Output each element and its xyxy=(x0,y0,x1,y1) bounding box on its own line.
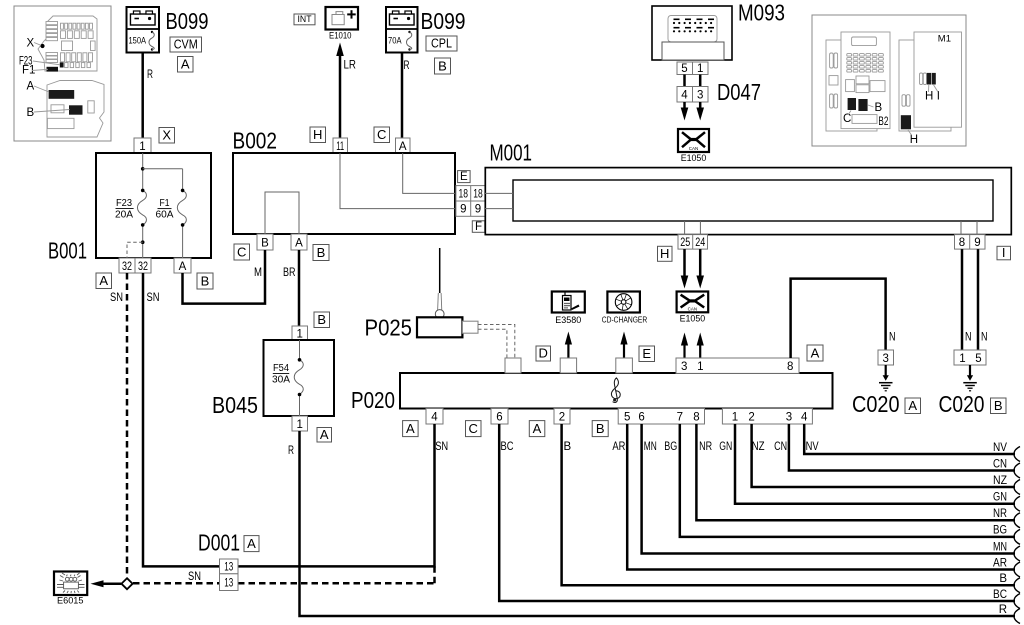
svg-text:60A: 60A xyxy=(156,210,174,221)
wire NR: P020 to right rail xyxy=(696,424,1015,520)
pins 18/18 9/9 (B002-M001 junction) xyxy=(456,186,486,217)
wire SN (dashed): junction to D001/P020 xyxy=(133,566,435,583)
label E xyxy=(458,171,471,183)
svg-text:BG: BG xyxy=(664,441,677,453)
wires M093 to D047 xyxy=(685,75,701,87)
svg-text:150A: 150A xyxy=(129,36,147,47)
svg-text:CN: CN xyxy=(774,441,787,453)
svg-text:9: 9 xyxy=(460,204,466,216)
svg-text:A: A xyxy=(181,57,190,72)
wire M: B002 pin B to B001 pin A xyxy=(183,250,266,304)
connector D001 pins 13/13 xyxy=(220,559,239,591)
svg-text:D: D xyxy=(539,346,548,361)
svg-text:BR: BR xyxy=(283,267,296,279)
wire BC: P020 to right rail xyxy=(499,424,1015,601)
svg-text:R: R xyxy=(147,69,153,81)
wires N N: M001 pins 8,9 to C020-B xyxy=(962,249,988,350)
component M001 (body computer) xyxy=(485,140,1011,235)
svg-text:B: B xyxy=(438,58,447,73)
pin 3 (C020-A) xyxy=(878,350,894,365)
svg-text:GN: GN xyxy=(993,492,1007,504)
svg-text:E1050: E1050 xyxy=(681,153,707,163)
svg-text:M: M xyxy=(254,267,262,279)
label C (B002) xyxy=(234,244,250,260)
svg-text:1: 1 xyxy=(296,328,302,340)
svg-text:NV: NV xyxy=(993,442,1007,454)
svg-text:5: 5 xyxy=(975,353,981,365)
wire BR: B002 pin A to B045 pin 1 xyxy=(283,250,299,326)
trace rows into M001 xyxy=(485,193,513,208)
pin 6 (P020) xyxy=(491,409,508,425)
label I (M001) xyxy=(997,245,1011,260)
svg-text:SN: SN xyxy=(110,292,123,304)
P020 top connector (antenna) xyxy=(505,358,521,373)
wires arrows P020 pins 3,1 to E1050 xyxy=(681,333,704,359)
svg-text:B: B xyxy=(317,312,326,327)
svg-text:1: 1 xyxy=(296,419,302,431)
wire BG: P020 to right rail xyxy=(680,424,1015,537)
svg-text:R: R xyxy=(288,445,294,457)
node E1050 (CAN, middle) xyxy=(677,292,709,324)
svg-text:F54: F54 xyxy=(273,363,289,374)
svg-text:R: R xyxy=(404,60,410,72)
C020 B label xyxy=(939,391,1007,417)
wires M001 25/24 to E1050 with arrows xyxy=(681,249,704,288)
wire NV: P020 to right rail xyxy=(804,424,1015,454)
wire B: P020 to right rail xyxy=(562,424,1015,585)
svg-text:I: I xyxy=(937,91,940,103)
component P020 (radio) xyxy=(351,373,833,413)
svg-text:MN: MN xyxy=(644,441,657,453)
svg-text:4: 4 xyxy=(431,411,438,423)
svg-text:5: 5 xyxy=(624,411,630,423)
component B001 (fuse box) xyxy=(48,153,211,264)
label A xyxy=(403,421,419,437)
label B (B045 top) xyxy=(314,312,330,328)
svg-text:C020: C020 xyxy=(939,391,985,417)
right rail labels and break marks xyxy=(993,442,1020,624)
coax dashed link P025 to P020 xyxy=(478,325,515,359)
svg-text:CD-CHANGER: CD-CHANGER xyxy=(602,315,648,325)
component M093 (connector module) xyxy=(652,0,785,60)
wire LR with arrow up to E1010 xyxy=(336,43,356,140)
svg-text:GN: GN xyxy=(719,441,732,453)
svg-text:SN: SN xyxy=(188,571,201,583)
svg-text:F1: F1 xyxy=(160,198,170,209)
svg-text:3: 3 xyxy=(697,89,703,101)
pin A (B002 bottom) xyxy=(291,234,307,250)
label B xyxy=(592,421,608,437)
svg-text:B: B xyxy=(317,245,326,260)
wire AR: P020 to right rail xyxy=(627,424,1015,570)
label B (B099-2 harness) xyxy=(435,58,451,74)
pins 1 2 3 4 (P020) xyxy=(722,409,812,425)
svg-text:H: H xyxy=(925,91,933,103)
wire arrow P020 to CD-CHANGER xyxy=(620,332,627,359)
svg-text:7: 7 xyxy=(677,411,683,423)
svg-text:B: B xyxy=(27,107,35,119)
wire R from B099-2 to B002 pin A xyxy=(402,53,410,140)
svg-text:C020: C020 xyxy=(852,391,900,417)
wire R from B099 to B001 pin 1 xyxy=(143,53,153,140)
node X label xyxy=(159,128,175,144)
svg-text:B: B xyxy=(875,102,883,114)
wire colour labels under P020 pins xyxy=(435,441,819,453)
wire arrow P020 to E3580 xyxy=(565,332,572,359)
svg-text:A: A xyxy=(406,421,415,436)
ground C020-B xyxy=(963,365,977,391)
svg-text:X: X xyxy=(162,128,171,143)
treble clef symbol xyxy=(611,378,620,403)
wire R: B045 to bottom rail xyxy=(288,431,1015,616)
connector D047 pins 4 3 xyxy=(677,79,761,105)
svg-text:1: 1 xyxy=(732,411,738,423)
wire SN (solid): B001 pin 32 to P020 pin 4 xyxy=(143,273,435,566)
label B (B001) xyxy=(197,273,213,289)
wire CN: P020 to right rail xyxy=(789,424,1015,471)
pin 11 (B002 top) xyxy=(333,138,348,153)
ground C020-A xyxy=(879,365,893,391)
svg-text:CAN: CAN xyxy=(688,306,698,311)
svg-text:AR: AR xyxy=(993,557,1007,569)
svg-text:B: B xyxy=(994,398,1003,413)
label C xyxy=(466,421,482,437)
svg-text:E3580: E3580 xyxy=(555,315,581,325)
svg-text:SN: SN xyxy=(435,441,448,453)
svg-text:A: A xyxy=(533,421,542,436)
svg-text:24: 24 xyxy=(695,237,705,249)
pins 1 5 (C020-B) xyxy=(954,350,986,365)
svg-text:20A: 20A xyxy=(115,210,133,221)
fuse F23 20A xyxy=(115,153,146,258)
svg-text:13: 13 xyxy=(224,561,233,573)
antenna P025 xyxy=(365,248,479,341)
svg-text:5: 5 xyxy=(681,63,687,75)
svg-text:C: C xyxy=(377,127,386,142)
B002 internal traces xyxy=(265,153,455,234)
svg-text:8: 8 xyxy=(959,237,965,249)
svg-text:INT: INT xyxy=(298,14,312,24)
svg-text:B: B xyxy=(261,237,269,249)
svg-text:32: 32 xyxy=(122,261,132,273)
D001 label xyxy=(198,530,259,556)
component B045 (fuse box F54) xyxy=(212,340,334,418)
svg-text:I: I xyxy=(1002,245,1006,260)
svg-text:NZ: NZ xyxy=(993,475,1007,487)
pin 1 (B001 top) xyxy=(134,138,151,153)
svg-text:A: A xyxy=(320,427,329,442)
svg-text:9: 9 xyxy=(475,204,481,216)
P020 top pins 3 1 8 xyxy=(676,358,799,373)
label INT xyxy=(294,14,315,25)
svg-text:LR: LR xyxy=(344,60,357,72)
node E1010 (battery positive) xyxy=(326,7,359,41)
svg-text:D047: D047 xyxy=(717,79,761,105)
svg-text:P020: P020 xyxy=(351,387,395,413)
svg-text:F: F xyxy=(475,221,482,233)
svg-text:8: 8 xyxy=(693,411,699,423)
fuse F1 60A xyxy=(143,169,187,258)
fuse F54 30A xyxy=(272,340,303,416)
svg-text:4: 4 xyxy=(681,89,688,101)
svg-text:CVM: CVM xyxy=(174,37,198,52)
M001 internal stubs xyxy=(685,221,977,235)
svg-text:18: 18 xyxy=(473,188,483,200)
svg-text:H: H xyxy=(910,134,918,146)
svg-text:9: 9 xyxy=(974,237,980,249)
svg-text:B: B xyxy=(596,421,605,436)
svg-text:A: A xyxy=(811,345,820,360)
svg-text:30A: 30A xyxy=(272,375,290,386)
label H (M001) xyxy=(658,246,673,261)
pin 4 (P020) xyxy=(426,409,443,425)
svg-text:N: N xyxy=(965,332,972,344)
label A (P020 pin 8) xyxy=(807,345,823,361)
label E xyxy=(639,346,655,362)
pin B (B002 bottom) xyxy=(257,234,273,250)
svg-text:H: H xyxy=(660,246,669,261)
svg-text:E: E xyxy=(642,346,651,361)
pins 25 24 (M001) xyxy=(678,235,708,250)
svg-text:4: 4 xyxy=(801,411,808,423)
svg-text:BG: BG xyxy=(993,525,1007,537)
svg-text:X: X xyxy=(27,38,35,50)
node CD-CHANGER xyxy=(602,292,648,325)
svg-text:A: A xyxy=(399,141,407,153)
svg-text:A: A xyxy=(99,273,108,288)
node E1050 (CAN, top) xyxy=(678,129,709,163)
wire MN: P020 to right rail xyxy=(642,424,1015,554)
svg-text:B: B xyxy=(201,273,210,288)
svg-text:B001: B001 xyxy=(48,238,87,264)
component B002 (junction unit) xyxy=(233,128,456,235)
svg-text:A: A xyxy=(295,237,303,249)
svg-text:3: 3 xyxy=(681,361,687,373)
svg-text:NR: NR xyxy=(699,441,712,453)
svg-text:A: A xyxy=(247,536,256,551)
label CVM xyxy=(170,37,202,52)
pin 1 (B045 top) xyxy=(292,326,308,340)
node E3580 (phone) xyxy=(552,292,585,326)
svg-text:2: 2 xyxy=(559,411,565,423)
svg-text:B002: B002 xyxy=(233,128,278,154)
pin 2 (P020) xyxy=(554,409,570,425)
P020 top connector (CD) xyxy=(616,358,633,373)
svg-text:B099: B099 xyxy=(166,8,209,34)
wire N: P020 pin 8 to C020-A xyxy=(791,279,896,358)
label F xyxy=(472,221,485,233)
svg-text:M001: M001 xyxy=(490,140,533,166)
svg-text:P025: P025 xyxy=(365,315,413,341)
label B (B002) xyxy=(313,245,329,261)
svg-text:H: H xyxy=(313,127,322,142)
pin A (B002 top) xyxy=(396,138,411,153)
svg-text:E1010: E1010 xyxy=(329,31,352,41)
svg-text:25: 25 xyxy=(680,237,690,249)
svg-text:1: 1 xyxy=(697,63,703,75)
arrow to E6015 xyxy=(91,580,122,587)
pins 5 6 7 8 (P020) xyxy=(618,409,704,425)
svg-text:R: R xyxy=(999,604,1007,616)
svg-text:3: 3 xyxy=(786,411,792,423)
svg-text:D001: D001 xyxy=(198,530,240,556)
svg-text:B099: B099 xyxy=(421,8,466,34)
wires D047 to E1050 with arrows xyxy=(681,102,704,121)
junction diamond xyxy=(121,578,132,589)
svg-text:N: N xyxy=(889,332,896,344)
pin 1 (B045 bottom) xyxy=(292,416,308,431)
inset: module location view (top-right) xyxy=(812,15,966,146)
label CPL xyxy=(426,36,457,51)
svg-text:32: 32 xyxy=(138,261,148,273)
svg-text:11: 11 xyxy=(336,141,344,153)
svg-text:BC: BC xyxy=(993,589,1007,601)
battery B099 (150A) xyxy=(127,7,209,53)
battery B099 (70A) xyxy=(386,7,466,53)
svg-text:A: A xyxy=(27,81,35,93)
svg-text:CN: CN xyxy=(993,458,1007,470)
wire GN: P020 to right rail xyxy=(735,424,1015,504)
svg-text:1: 1 xyxy=(139,141,145,153)
svg-text:CAN: CAN xyxy=(689,146,699,151)
svg-text:AR: AR xyxy=(612,441,625,453)
svg-text:NV: NV xyxy=(806,441,819,453)
label C (B002 pin A) xyxy=(374,127,390,143)
internal dashed branch to pin 32 xyxy=(127,242,143,258)
svg-text:A: A xyxy=(908,398,917,413)
svg-text:NR: NR xyxy=(993,508,1007,520)
pin A (B001 bottom) xyxy=(174,258,191,273)
svg-text:1: 1 xyxy=(697,361,703,373)
svg-text:SN: SN xyxy=(147,292,160,304)
pins 8 9 (M001 right) xyxy=(955,235,986,250)
svg-text:MN: MN xyxy=(993,541,1007,553)
label D xyxy=(536,346,551,361)
label H (B002 pin 11) xyxy=(310,127,326,143)
pins 32 32 (B001 bottom) xyxy=(119,258,151,273)
svg-text:13: 13 xyxy=(224,578,233,590)
svg-text:70A: 70A xyxy=(388,36,402,47)
svg-text:C: C xyxy=(469,421,478,436)
svg-text:B045: B045 xyxy=(212,392,258,418)
svg-text:N: N xyxy=(981,332,988,344)
svg-text:B: B xyxy=(564,441,572,453)
wire NZ: P020 to right rail xyxy=(752,424,1015,487)
svg-text:3: 3 xyxy=(882,353,888,365)
svg-text:E6015: E6015 xyxy=(57,596,84,606)
svg-text:B2: B2 xyxy=(878,116,888,128)
svg-text:E1050: E1050 xyxy=(680,313,706,323)
label A (B099 harness) xyxy=(178,57,194,73)
svg-text:2: 2 xyxy=(748,411,754,423)
label A (B045) xyxy=(317,427,332,442)
C020 A label xyxy=(852,391,921,417)
label A (B001) xyxy=(96,273,112,289)
svg-text:CPL: CPL xyxy=(431,36,452,51)
svg-text:M1: M1 xyxy=(938,34,951,45)
svg-text:A: A xyxy=(179,261,187,273)
svg-text:6: 6 xyxy=(496,411,502,423)
label A xyxy=(529,421,545,437)
svg-text:E: E xyxy=(460,171,468,183)
svg-text:1: 1 xyxy=(959,353,965,365)
pins 5 1 (M093) xyxy=(677,62,708,75)
svg-text:8: 8 xyxy=(787,361,793,373)
svg-text:C: C xyxy=(237,244,246,259)
inset: fuse-box location view (top-left) xyxy=(14,6,111,141)
node E6015 (lamp) xyxy=(54,572,87,606)
svg-text:C: C xyxy=(843,113,851,125)
svg-text:NZ: NZ xyxy=(752,441,765,453)
P020 top connector (E3580) xyxy=(560,358,576,373)
wire SN (dashed): B001 pin 32 to junction xyxy=(110,273,127,578)
svg-text:F23: F23 xyxy=(116,198,132,209)
svg-text:B: B xyxy=(999,573,1007,585)
svg-text:M093: M093 xyxy=(738,0,785,26)
svg-text:BC: BC xyxy=(501,441,514,453)
svg-text:18: 18 xyxy=(459,188,469,200)
svg-text:6: 6 xyxy=(638,411,644,423)
